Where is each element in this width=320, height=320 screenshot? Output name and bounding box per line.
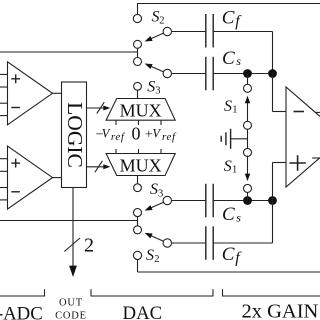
label S2 top: [152, 8, 165, 26]
wire Cf bottom left: [172, 242, 206, 244]
svg-text:C: C: [222, 204, 235, 225]
switch wiper arrow Cs top: [145, 64, 164, 73]
switch contact S1 bottom: [244, 184, 252, 192]
mux top input stubs: [116, 120, 161, 125]
logic block U2: [62, 82, 87, 188]
switch contact S3 top: [134, 82, 142, 90]
label S1 top: [224, 98, 238, 116]
label Cf bottom: [222, 244, 242, 267]
wire Cf top to node: [272, 32, 274, 74]
ground: [221, 129, 247, 149]
svg-text:2: 2: [84, 235, 94, 257]
wire to opamp minus: [273, 74, 287, 112]
wire top feedback rail: [138, 3, 320, 5]
capacitor Cs top: [206, 57, 213, 91]
svg-text:MUX: MUX: [120, 100, 162, 120]
label 2: [84, 235, 94, 257]
wire S1 to node bottom: [247, 192, 249, 200]
label Cs top: [222, 48, 241, 69]
mux bottom: [106, 154, 175, 176]
mux bottom input stubs: [116, 149, 161, 154]
svg-text:S: S: [152, 8, 160, 25]
wire Cf bottom right: [213, 242, 272, 244]
svg-text:OUT: OUT: [59, 298, 83, 309]
node junction bottom A: [243, 196, 252, 205]
bus arrow logic to mux top: [87, 106, 111, 111]
svg-text:CODE: CODE: [55, 311, 87, 320]
switch pole S1 mid upper: [244, 121, 252, 129]
svg-text:S: S: [146, 247, 154, 264]
svg-text:S: S: [224, 98, 232, 115]
svg-text:C: C: [222, 48, 235, 69]
wire opamp out bottom: [312, 157, 320, 159]
label +Vref: [145, 126, 177, 143]
wire input top: [0, 51, 138, 53]
svg-text:S: S: [150, 181, 158, 198]
wire comp2 out: [53, 177, 62, 179]
label MUX bottom: [120, 155, 162, 175]
bus slash bottom: [95, 161, 102, 172]
wire Cs bottom right: [213, 200, 272, 202]
svg-text:-ADC: -ADC: [0, 304, 43, 320]
label MUX top: [120, 100, 162, 120]
label S3 top: [147, 78, 160, 96]
label -ADC: [0, 304, 43, 320]
label OUT CODE: [55, 298, 87, 320]
svg-text:S: S: [224, 158, 232, 175]
wire Cf top right: [213, 31, 272, 33]
wire to opamp plus: [273, 163, 287, 201]
switch wiper arrow S1 bottom: [245, 156, 250, 182]
capacitor Cf bottom: [206, 226, 213, 259]
wire S2 top stub: [137, 3, 139, 15]
svg-text:S: S: [147, 78, 155, 95]
svg-text:LOGIC: LOGIC: [63, 102, 87, 168]
wire out code: [72, 188, 74, 267]
switch contact S2 top: [133, 14, 141, 22]
switch wiper arrow S1 top: [245, 96, 250, 122]
svg-text:0: 0: [132, 124, 141, 144]
svg-text:1: 1: [232, 105, 237, 116]
switch common Cs bottom: [163, 196, 171, 204]
label Cf top: [222, 7, 242, 30]
wire Cs top left: [172, 73, 206, 75]
wire S2 bottom stub: [137, 259, 139, 272]
svg-text:C: C: [222, 244, 235, 265]
wire S1 mid: [247, 129, 249, 148]
node junction bottom B: [268, 196, 277, 205]
wire input bottom: [0, 220, 138, 222]
label S2 bottom: [146, 247, 160, 265]
label -Vref: [96, 126, 126, 143]
bus arrow logic to mux bottom: [87, 164, 111, 169]
svg-text:ref: ref: [111, 131, 126, 143]
out code arrowhead: [69, 266, 77, 277]
wire S3 to MUX bottom: [137, 176, 139, 184]
wire node to S1 top: [247, 74, 249, 85]
switch contact S2 bottom: [133, 251, 141, 259]
bracket 2x GAIN: [223, 289, 320, 296]
svg-text:C: C: [222, 7, 235, 28]
comparator 1 input stubs: [0, 74, 8, 115]
switch wiper arrow Cs bottom: [145, 202, 164, 211]
wire Cf top left: [172, 31, 206, 33]
bus slash top: [97, 102, 104, 113]
switch wiper arrow Cf top: [145, 33, 164, 42]
switch common Cf top: [163, 27, 171, 35]
label S3 bottom: [150, 181, 163, 199]
comparator 1: [8, 62, 53, 125]
svg-text:ref: ref: [162, 131, 177, 143]
switch wiper arrow Cf bottom: [145, 233, 164, 242]
svg-text:s: s: [236, 210, 241, 224]
bracket sub-ADC: [0, 289, 45, 296]
svg-text:3: 3: [158, 188, 163, 199]
wire Cs bottom left: [172, 200, 206, 202]
svg-text:MUX: MUX: [120, 155, 162, 175]
wire Cs top right: [213, 73, 272, 75]
switch common Cf bottom: [163, 239, 171, 247]
capacitor Cf top: [206, 14, 213, 48]
svg-text:3: 3: [155, 86, 160, 97]
svg-text:DAC: DAC: [123, 303, 163, 320]
wire bottom feedback rail: [138, 271, 320, 273]
svg-text:1: 1: [232, 165, 237, 176]
wire comp1 out: [53, 92, 62, 94]
svg-text:2: 2: [154, 254, 159, 265]
label S1 bottom: [224, 158, 238, 176]
svg-text:s: s: [236, 54, 241, 68]
capacitor Cs bottom: [206, 184, 213, 218]
svg-text:2: 2: [159, 16, 164, 27]
label DAC: [123, 303, 163, 320]
label Cs bottom: [222, 204, 241, 225]
wire opamp out top: [315, 111, 320, 113]
mux top: [106, 99, 175, 121]
label 0: [132, 124, 141, 144]
comparator 2: [8, 146, 53, 209]
label 2x GAIN: [242, 301, 319, 320]
switch contact S1 top: [244, 84, 252, 92]
bracket DAC: [91, 289, 213, 296]
bus slash out code: [64, 238, 80, 252]
switch pole S1 mid lower: [244, 148, 252, 156]
node pole pair top: [134, 40, 142, 65]
svg-text:2x GAIN: 2x GAIN: [242, 301, 319, 320]
wire Cf bottom to node: [272, 201, 274, 244]
node junction top A: [243, 69, 252, 78]
comparator 2 input stubs: [0, 159, 8, 200]
op-amp U1: [286, 87, 320, 187]
switch contact S3 bottom: [134, 184, 142, 192]
switch common Cs top: [163, 69, 171, 77]
wire S3 to MUX top: [137, 90, 139, 98]
node junction top B: [268, 69, 277, 78]
node pole pair bottom: [134, 209, 142, 234]
